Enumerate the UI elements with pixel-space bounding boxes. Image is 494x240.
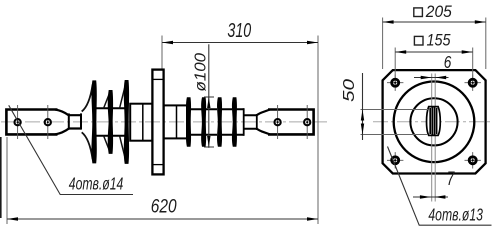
wire stud slot extension lines bbox=[431, 74, 433, 202]
svg-text:310: 310 bbox=[227, 20, 251, 42]
wire dimension line 7 bbox=[413, 196, 448, 198]
node flange square bbox=[383, 70, 486, 173]
wire core L1 bbox=[97, 108, 110, 135]
node intermediate drum bbox=[130, 104, 152, 141]
node hole R2 bbox=[306, 105, 308, 139]
node bolt hole TL bbox=[387, 75, 403, 91]
wire extension lines 155 bbox=[394, 48, 396, 78]
wire flange top division bbox=[152, 78, 163, 80]
wire core R3 bbox=[222, 109, 232, 135]
wire shed2 skirt upper bbox=[104, 93, 110, 109]
wire hub division bbox=[176, 105, 178, 138]
wire shed2 skirt lower bbox=[104, 136, 110, 152]
wire shed3 skirt lower bbox=[120, 136, 126, 161]
wire dimension line 310 bbox=[162, 42, 318, 44]
node hole L2 bbox=[47, 105, 49, 139]
wire core R2 bbox=[206, 109, 217, 135]
node dim text square155 bbox=[414, 36, 423, 45]
svg-text:7: 7 bbox=[447, 169, 456, 190]
node left neck bbox=[69, 115, 81, 128]
node shed R4 bbox=[232, 97, 237, 147]
node bolt hole TR bbox=[465, 75, 481, 91]
wire shed1 bell upper bbox=[82, 85, 93, 112]
wire leader 4otv13 bbox=[388, 147, 492, 226]
svg-text:ø100: ø100 bbox=[192, 53, 209, 92]
node right neck bbox=[244, 115, 257, 129]
svg-text:620: 620 bbox=[151, 196, 177, 218]
svg-text:205: 205 bbox=[425, 2, 453, 21]
svg-text:4отв.ø14: 4отв.ø14 bbox=[69, 174, 124, 194]
node shed L2 bbox=[108, 90, 113, 154]
wire extension line x322 shared 310/620 bbox=[317, 36, 319, 225]
node shed R2 bbox=[201, 97, 206, 147]
wire core L2 bbox=[113, 108, 125, 135]
wire dimension line 205 bbox=[383, 21, 486, 23]
node left terminal lug bbox=[6, 110, 57, 135]
node scan-edge artifact bbox=[0, 137, 2, 218]
svg-text:4отв.ø13: 4отв.ø13 bbox=[428, 205, 483, 225]
node stud end bbox=[427, 107, 441, 136]
wire extension lines 50 bbox=[361, 109, 429, 111]
node right hub bbox=[164, 105, 187, 138]
wire extension lines 205 bbox=[382, 18, 384, 70]
wire shed1 bell lower bbox=[82, 132, 93, 159]
node left taper bbox=[55, 110, 69, 135]
node shed L3 bbox=[124, 80, 129, 164]
wire core R4 bbox=[237, 109, 244, 135]
node shed R3 bbox=[217, 97, 222, 147]
node shed L1 bbox=[91, 80, 96, 163]
node bolt hole BL bbox=[387, 152, 403, 168]
wire flange bottom division bbox=[152, 164, 163, 166]
wire stud hatching bbox=[430, 107, 436, 135]
node shed R1 bbox=[186, 97, 191, 147]
wire centerline right view bbox=[373, 121, 493, 123]
svg-text:155: 155 bbox=[427, 30, 452, 49]
node flange boss circle bbox=[394, 82, 475, 163]
node bolt hole BR bbox=[465, 152, 481, 168]
node hole L1 bbox=[17, 105, 19, 139]
svg-text:50: 50 bbox=[341, 79, 358, 102]
node inner circle bbox=[410, 98, 457, 145]
wire dimension line 155 bbox=[395, 51, 473, 53]
wire left collar edge bbox=[68, 113, 70, 129]
wire dimension line 620 bbox=[7, 218, 318, 220]
wire right collar edge bbox=[256, 114, 258, 130]
wire extension line x162 for 310 bbox=[161, 36, 163, 69]
wire centerline left view bbox=[1, 121, 327, 123]
wire shed3 skirt upper bbox=[120, 84, 126, 109]
node flange side view bbox=[152, 70, 163, 175]
wire dimension line d100 bbox=[208, 44, 210, 148]
wire dimension line 6 bbox=[414, 77, 449, 79]
node dim text square205 bbox=[414, 8, 423, 17]
wire dimension line 50 bbox=[362, 73, 364, 140]
wire drum division bbox=[142, 104, 144, 141]
node right terminal lug bbox=[268, 110, 314, 135]
wire extension line x7 for 620 bbox=[6, 137, 8, 224]
node hole R1 bbox=[277, 105, 279, 139]
wire leader 4otv14 bbox=[9, 105, 133, 194]
wire core R1 bbox=[191, 109, 202, 135]
svg-text:6: 6 bbox=[444, 52, 452, 72]
node right taper bbox=[257, 110, 270, 135]
wire neck end edge bbox=[80, 113, 82, 129]
wire core end edge bbox=[243, 108, 245, 136]
